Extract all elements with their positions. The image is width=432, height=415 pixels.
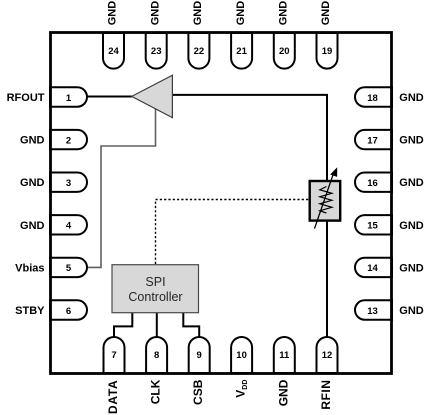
svg-text:11: 11 — [279, 350, 290, 361]
dashed control line SPI to attenuator — [156, 200, 310, 265]
svg-text:10: 10 — [236, 350, 247, 361]
svg-text:3: 3 — [66, 178, 71, 189]
pin 12 pad — [317, 337, 338, 373]
svg-text:16: 16 — [367, 178, 378, 189]
attenuator arrow — [315, 175, 334, 229]
svg-text:GND: GND — [278, 1, 290, 26]
pin 6 pad — [50, 300, 87, 319]
pin 4 pad — [50, 215, 87, 234]
svg-text:GND: GND — [235, 1, 247, 26]
pin 23 pad — [146, 33, 167, 69]
wire SPI to pin7 — [114, 312, 132, 338]
svg-text:CSB: CSB — [191, 379, 205, 405]
variable attenuator box — [310, 181, 341, 221]
svg-text:23: 23 — [151, 46, 162, 57]
pin 1 pad — [50, 87, 87, 106]
op-amp U1 amplifier triangle — [132, 75, 173, 117]
svg-text:GND: GND — [107, 1, 119, 26]
pin 20 pad — [274, 33, 295, 69]
svg-text:SPI: SPI — [145, 275, 165, 289]
svg-text:20: 20 — [279, 46, 290, 57]
svg-text:GND: GND — [20, 177, 45, 189]
svg-text:5: 5 — [66, 263, 72, 274]
pin 18 pad — [355, 87, 392, 106]
pin 11 pad — [274, 337, 295, 373]
SPI controller block — [112, 265, 199, 313]
svg-text:DATA: DATA — [106, 380, 120, 414]
svg-text:15: 15 — [367, 221, 378, 232]
svg-text:Vbias: Vbias — [15, 262, 44, 274]
pin 7 pad — [104, 337, 125, 373]
svg-text:GND: GND — [320, 1, 332, 26]
svg-text:GND: GND — [399, 135, 424, 147]
pin 8 pad — [146, 337, 167, 373]
pin 2 pad — [50, 130, 87, 149]
wire SPI to pin8 — [156, 312, 158, 338]
pin 15 pad — [355, 215, 392, 234]
svg-text:GND: GND — [149, 1, 161, 26]
pin 3 pad — [50, 173, 87, 192]
svg-text:19: 19 — [322, 46, 333, 57]
svg-text:GND: GND — [399, 92, 424, 104]
pin 22 pad — [188, 33, 209, 69]
svg-text:GND: GND — [399, 220, 424, 232]
wire pin1 to amplifier output — [85, 96, 133, 98]
svg-text:14: 14 — [367, 263, 378, 274]
svg-text:CLK: CLK — [149, 379, 163, 404]
bias wire pin5 to amplifier — [85, 108, 156, 267]
svg-text:GND: GND — [20, 220, 45, 232]
wire attenuator bottom to pin12 RFIN — [326, 220, 328, 338]
svg-text:12: 12 — [322, 350, 333, 361]
svg-text:22: 22 — [194, 46, 205, 57]
svg-text:1: 1 — [66, 93, 72, 104]
svg-text:18: 18 — [367, 93, 378, 104]
wire amplifier input to attenuator top — [173, 95, 328, 182]
svg-text:RFOUT: RFOUT — [7, 92, 45, 104]
pin 17 pad — [355, 130, 392, 149]
svg-text:GND: GND — [192, 1, 204, 26]
svg-text:GND: GND — [399, 305, 424, 317]
svg-text:GND: GND — [276, 379, 290, 406]
svg-text:GND: GND — [399, 262, 424, 274]
svg-text:8: 8 — [154, 350, 159, 361]
pin 14 pad — [355, 258, 392, 277]
svg-text:7: 7 — [111, 350, 116, 361]
pin 9 pad — [189, 337, 210, 373]
svg-text:GND: GND — [20, 135, 45, 147]
attenuator resistor zigzag — [320, 187, 332, 214]
pin 5 pad — [50, 258, 87, 277]
svg-text:4: 4 — [66, 221, 72, 232]
svg-text:17: 17 — [367, 135, 378, 146]
pin 10 pad — [231, 337, 252, 373]
svg-text:2: 2 — [66, 135, 71, 146]
svg-text:13: 13 — [367, 306, 378, 317]
svg-text:21: 21 — [236, 46, 247, 57]
svg-text:Controller: Controller — [128, 290, 182, 304]
pin 16 pad — [355, 173, 392, 192]
pin 19 pad — [317, 33, 338, 69]
svg-text:GND: GND — [399, 177, 424, 189]
svg-text:9: 9 — [197, 350, 202, 361]
svg-text:24: 24 — [108, 46, 119, 57]
pin 24 pad — [103, 33, 124, 69]
wire SPI to pin9 — [183, 312, 199, 338]
svg-text:STBY: STBY — [15, 305, 45, 317]
pin 21 pad — [231, 33, 252, 69]
package outline — [51, 33, 392, 374]
svg-text:6: 6 — [66, 306, 71, 317]
pin 13 pad — [355, 300, 392, 319]
svg-text:RFIN: RFIN — [319, 380, 333, 410]
